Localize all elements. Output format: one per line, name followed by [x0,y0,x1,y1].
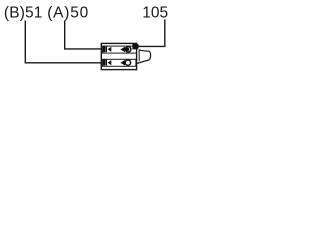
terminal row 2 housing [102,59,135,66]
row1 left terminal square [103,46,105,52]
row2 right blade triangle [120,60,125,66]
row2 ring terminal circle [125,60,130,65]
svg-text:105: 105 [142,5,168,22]
leader wire 105 [138,20,166,47]
row1 right blade triangle [120,47,125,53]
connector tab [136,50,151,64]
terminal row 1 housing [102,46,136,53]
leader wire (B)51 [25,21,102,63]
row1 ring terminal dot [126,48,129,51]
relay body outline [101,43,136,69]
row2 left terminal square [103,60,105,66]
svg-text:(B)51: (B)51 [4,5,43,22]
leader wire (A)50 [64,21,102,49]
top-right terminal blob [132,44,138,50]
row2 left blade triangle [108,60,112,65]
connector tab inner crease [138,50,140,61]
svg-text:(A)50: (A)50 [47,5,89,22]
row1 left blade triangle [108,47,112,52]
row1 ring terminal circle [126,47,131,52]
